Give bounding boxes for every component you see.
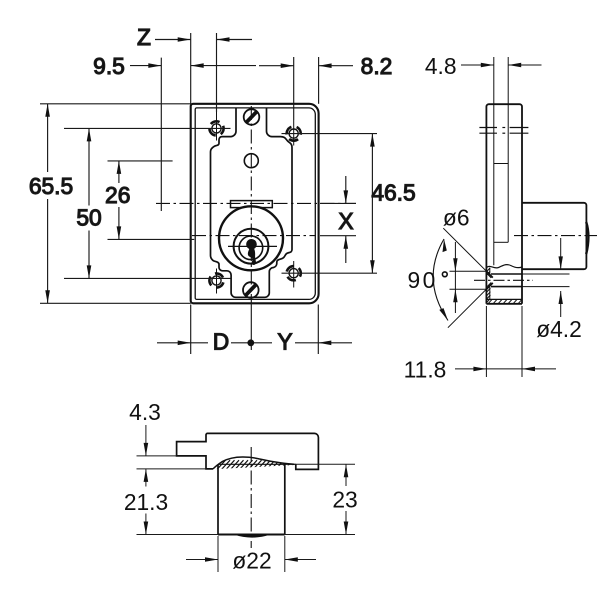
extension lines X <box>320 203 356 235</box>
dimension 65.5 <box>29 104 73 303</box>
svg-text:50: 50 <box>76 205 101 231</box>
stamped recess contour <box>211 108 293 297</box>
label 90 degrees <box>408 267 448 293</box>
extension lines left horizontals (65.5) <box>40 104 191 303</box>
dimension 4.3 <box>129 399 161 456</box>
SIDE VIEW GROUP <box>404 53 597 383</box>
svg-text:8.2: 8.2 <box>361 53 393 79</box>
svg-text:ø4.2: ø4.2 <box>536 316 582 342</box>
dimension X <box>338 176 353 263</box>
dimension Z <box>137 24 252 50</box>
grip dome outline <box>213 457 294 469</box>
extension lines screw axes left (50) <box>64 128 231 278</box>
dimension 9.5 <box>93 53 256 79</box>
svg-text:11.8: 11.8 <box>404 357 447 383</box>
flange section hatching <box>487 299 522 303</box>
cylinder crowned end arc <box>586 222 588 254</box>
top-right mounting screw <box>287 120 301 146</box>
bottom countersunk slot screw <box>243 282 259 298</box>
plate horizontal centerline (dash-dot) <box>156 202 356 204</box>
screw axis upper (dash-dot pair) <box>479 128 528 134</box>
svg-text:Z: Z <box>137 24 151 50</box>
left wall hatching near hole <box>487 268 491 300</box>
svg-text:Y: Y <box>277 329 292 355</box>
90 degree arc with arrows <box>433 239 448 321</box>
svg-text:4.8: 4.8 <box>425 53 457 79</box>
key cylinder core circle <box>239 236 263 260</box>
lock case inner offset outline (front view) <box>195 108 315 300</box>
label diameter 4.2 <box>536 316 582 342</box>
keyway chord line <box>228 245 277 247</box>
side body flange top line <box>486 298 522 300</box>
side cylinder outline <box>522 203 586 269</box>
dimension 21.3 <box>124 469 168 535</box>
countersink face lines (diameter 6) <box>450 271 487 289</box>
lock cylinder outer circle <box>219 206 283 270</box>
top countersunk slot screw <box>244 109 260 125</box>
cylinder axis dash-dot (side) <box>514 235 597 237</box>
cam lens at cylinder bottom <box>234 535 270 538</box>
svg-text:D: D <box>213 329 229 355</box>
extension line bottom center <box>250 303 252 350</box>
svg-text:23: 23 <box>332 487 357 513</box>
countersink cone edges <box>486 271 492 289</box>
dimension diameter 6 arrows <box>453 242 457 313</box>
dimension 11.8 (bottom) <box>404 306 556 383</box>
extension line cylinder bottom left <box>137 534 219 536</box>
extension lines screw axes right (46.5) <box>282 134 378 274</box>
top-left mounting screw <box>209 112 223 141</box>
extension lines 4.3 <box>137 456 207 469</box>
dimension 46.5 <box>370 134 416 274</box>
svg-text:4.3: 4.3 <box>129 399 161 425</box>
vertical centerline (dash-dot) <box>250 106 252 303</box>
svg-text:21.3: 21.3 <box>124 489 168 515</box>
cylinder retaining flange rectangle <box>231 201 273 208</box>
bottom-right mounting screw <box>287 261 301 288</box>
extension lines 26 <box>108 161 195 240</box>
middle small hole <box>244 154 258 168</box>
svg-text:9.5: 9.5 <box>93 53 125 79</box>
svg-text:65.5: 65.5 <box>29 173 73 199</box>
break wavy line <box>486 265 522 268</box>
dimension diameter 4.2 arrows <box>559 238 563 317</box>
cylinder core lines (4.8) <box>494 57 508 265</box>
svg-text:ø22: ø22 <box>232 547 271 573</box>
countersink 45deg dimension diagonals <box>443 228 486 328</box>
svg-text:90: 90 <box>408 267 438 293</box>
extension line left reference (9.5) <box>160 58 162 211</box>
bottom view case outline <box>177 433 319 469</box>
dimension D and Y row <box>157 329 352 355</box>
bottom cylinder body <box>218 465 285 535</box>
dimension 26 <box>105 161 130 240</box>
extension line left screw column <box>216 33 218 112</box>
dimension 23 <box>285 464 358 534</box>
svg-text:46.5: 46.5 <box>371 179 415 205</box>
grip dome hatching <box>212 460 299 470</box>
cylinder top face baseline <box>218 463 296 465</box>
dimension 8.2 <box>259 53 392 79</box>
dimension diameter 22 <box>186 536 316 573</box>
extension line plate left edge <box>190 33 192 354</box>
side body outline <box>486 104 522 304</box>
FRONT VIEW DIMENSIONS <box>29 24 416 355</box>
hole axis dash-dot <box>474 279 533 281</box>
keyhole (filled) <box>246 239 257 265</box>
FRONT VIEW GROUP <box>156 104 356 303</box>
dimension 50 <box>76 128 101 278</box>
extension line plate right edge <box>317 57 319 354</box>
bottom view vertical centerline <box>250 447 252 548</box>
hole lines (diameter 4.2) with extensions <box>491 274 570 287</box>
lock case outer outline (front view) <box>191 104 319 303</box>
core slot top and bottom ticks <box>494 164 508 243</box>
label diameter 6 <box>443 205 470 231</box>
cylinder axis horizontal centerline (dash-dot) <box>192 235 316 237</box>
bottom-left mounting screw <box>209 269 223 294</box>
svg-text:X: X <box>338 208 353 234</box>
extension line right screw column <box>293 57 295 120</box>
BOTTOM VIEW GROUP <box>124 399 358 574</box>
key cylinder ring circle <box>234 229 269 264</box>
svg-text:26: 26 <box>105 182 130 208</box>
svg-text:ø6: ø6 <box>443 205 470 231</box>
dimension 4.8 (top) <box>425 53 542 79</box>
